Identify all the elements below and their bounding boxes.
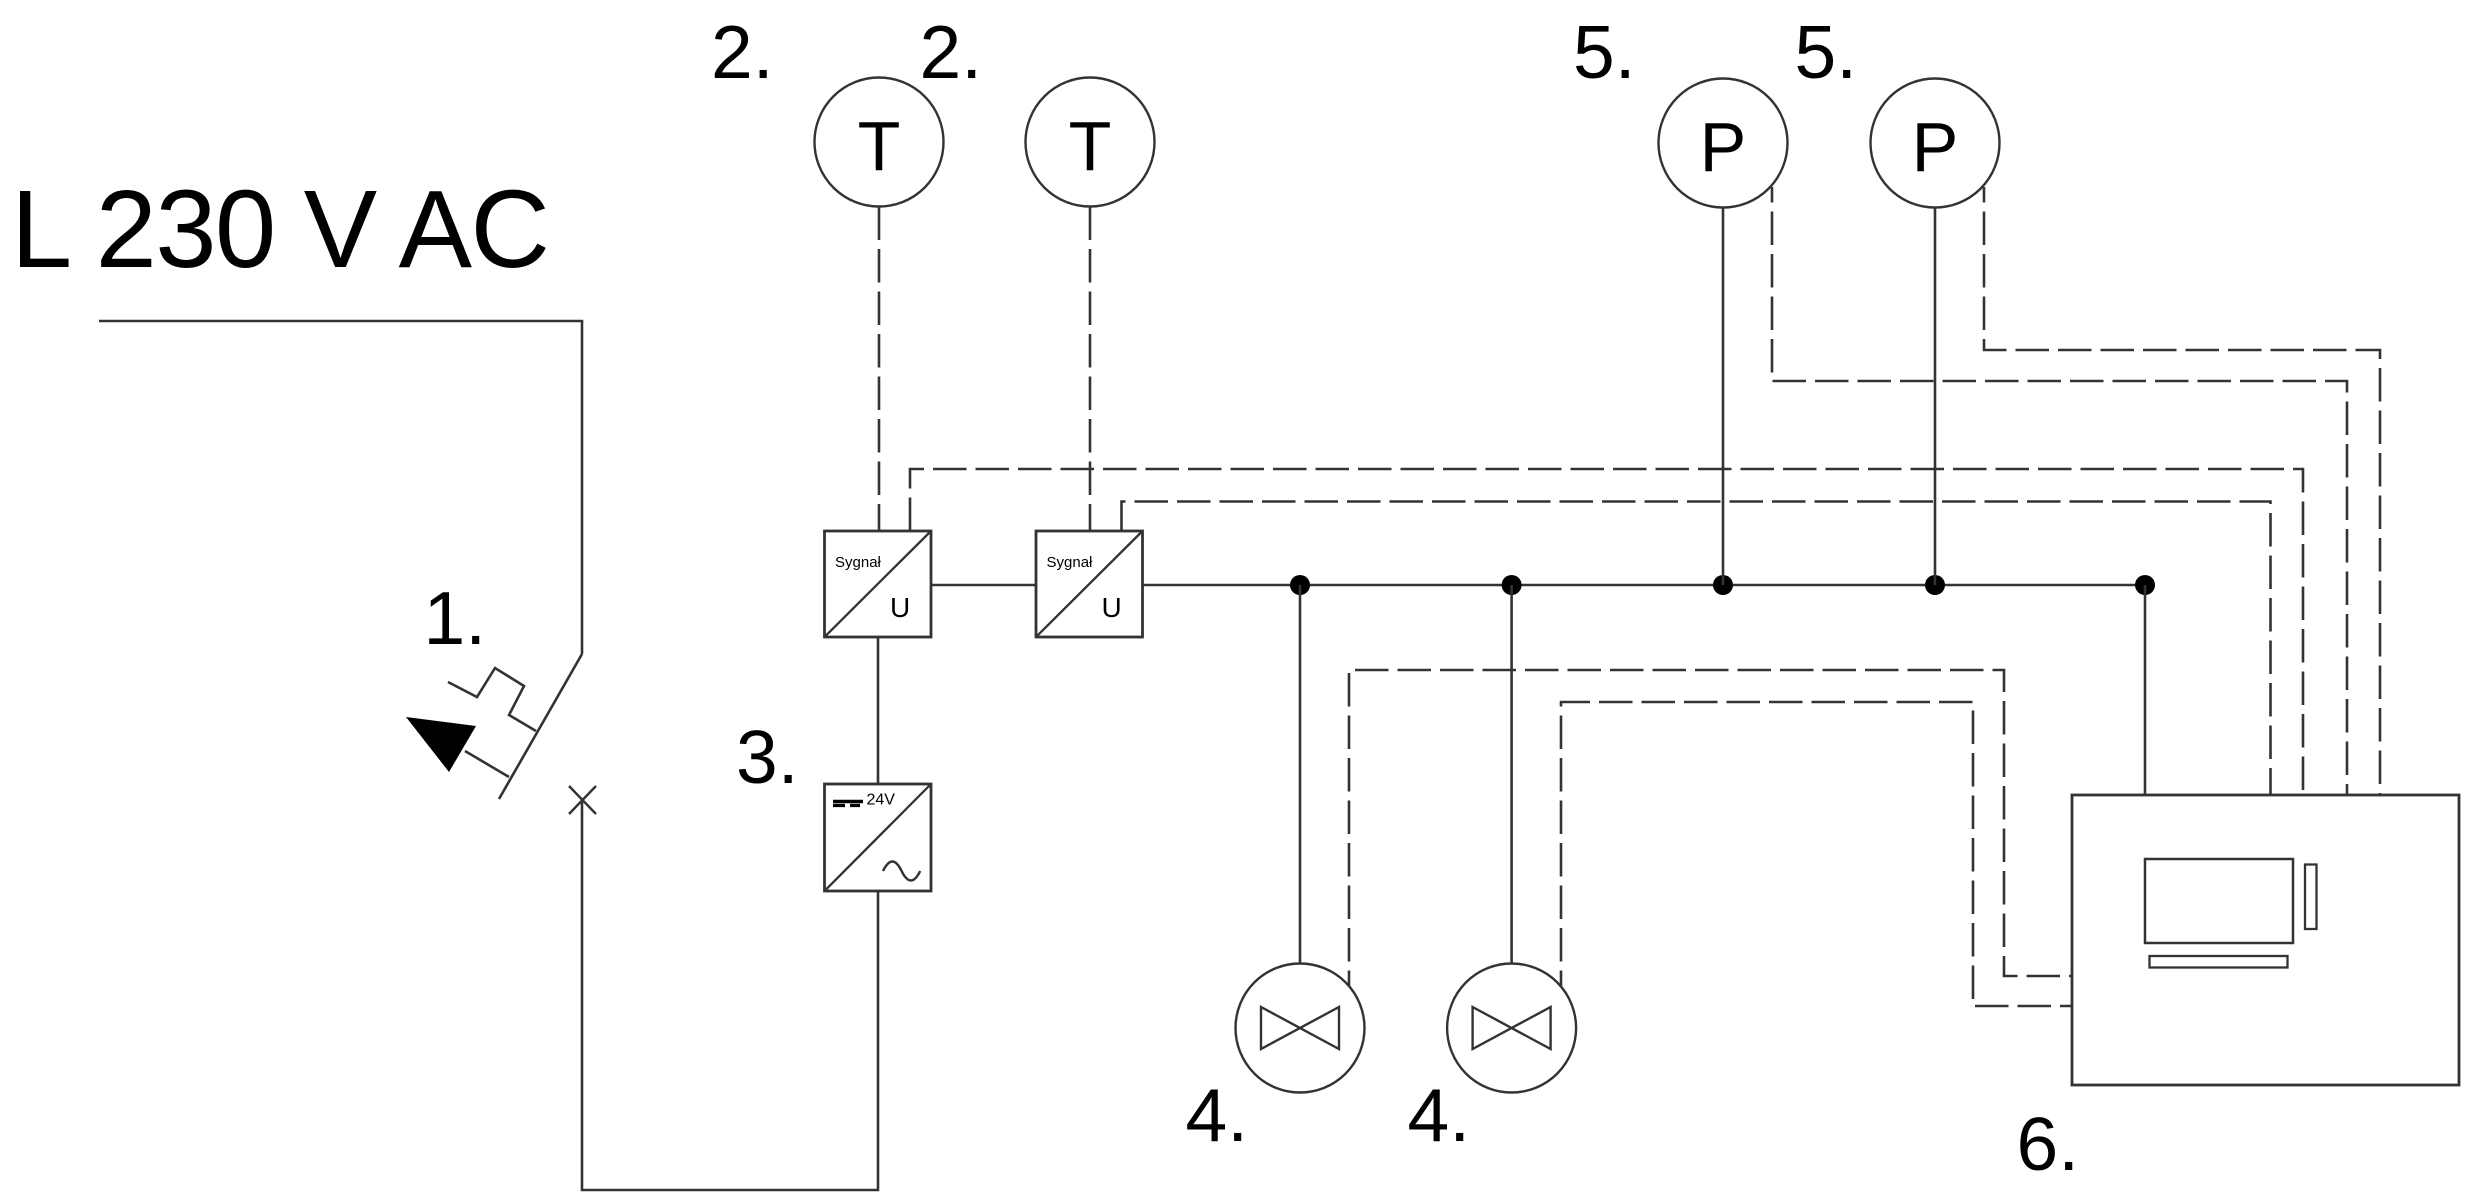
breaker 1 blade <box>499 654 582 799</box>
dashed feedback wire valve 1 to controller <box>1349 670 2072 986</box>
temperature sensor T2 circle <box>1026 78 1155 207</box>
svg-text:Sygnał: Sygnał <box>835 554 882 571</box>
wire bus to controller <box>2144 585 2147 795</box>
main bus wire <box>1143 584 2146 587</box>
svg-text:2.: 2. <box>711 10 774 94</box>
svg-text:4.: 4. <box>1408 1073 1471 1157</box>
valve 2 bowtie <box>1473 1007 1551 1049</box>
dashed feedback wire converter U2 to controller <box>1122 502 2271 796</box>
svg-text:P: P <box>1700 108 1747 186</box>
power supply box 3 <box>825 784 932 891</box>
wire bus to valve 2 <box>1510 585 1513 964</box>
controller keyboard <box>2150 956 2288 968</box>
valve 1 bowtie <box>1261 1007 1339 1049</box>
svg-text:1.: 1. <box>424 576 487 660</box>
svg-text:T: T <box>1069 107 1112 185</box>
junction node controller <box>2135 575 2155 595</box>
breaker 1 actuator arrow <box>406 717 476 772</box>
wire converter U1 to power supply <box>877 637 880 784</box>
signal converter U1 diagonal <box>825 531 932 637</box>
signal converter U1 box <box>825 531 932 637</box>
breaker 1 actuator tail <box>465 751 509 777</box>
svg-text:5.: 5. <box>1795 10 1858 94</box>
svg-text:L 230 V AC: L 230 V AC <box>11 168 548 291</box>
dashed feedback wire P2 to controller <box>1984 187 2380 795</box>
svg-text:U: U <box>890 592 910 623</box>
wire bus to valve 1 <box>1299 585 1302 964</box>
power supply DC symbol solid bar <box>833 800 863 803</box>
svg-text:Sygnał: Sygnał <box>1047 554 1094 571</box>
svg-text:4.: 4. <box>1186 1073 1249 1157</box>
pressure sensor P2 circle <box>1871 79 2000 208</box>
bus wire U1 to U2 <box>931 584 1036 587</box>
svg-text:2.: 2. <box>920 10 983 94</box>
svg-text:T: T <box>858 107 901 185</box>
wire L feed top <box>99 321 582 654</box>
svg-text:3.: 3. <box>736 715 799 799</box>
svg-text:5.: 5. <box>1573 10 1636 94</box>
svg-text:6.: 6. <box>2017 1102 2080 1186</box>
dashed feedback wire converter U1 to controller <box>910 469 2303 795</box>
pressure sensor P1 circle <box>1659 79 1788 208</box>
power supply DC symbol dashed bar <box>833 804 860 807</box>
svg-text:24V: 24V <box>867 792 896 809</box>
wire breaker to bottom loop <box>582 800 878 1190</box>
dashed feedback wire valve 2 to controller <box>1561 702 2072 1006</box>
dashed wire T1 to converter U1 <box>878 207 881 532</box>
power supply diagonal <box>825 784 932 891</box>
junction node valve 1 <box>1290 575 1310 595</box>
breaker 1 thermal trip element <box>448 668 536 731</box>
power supply AC sine symbol <box>883 862 920 881</box>
temperature sensor T1 circle <box>815 78 944 207</box>
junction node P2 <box>1925 575 1945 595</box>
junction node P1 <box>1713 575 1733 595</box>
signal converter U2 diagonal <box>1036 531 1143 637</box>
valve 1 circle <box>1236 964 1365 1093</box>
dashed feedback wire P1 to controller <box>1772 187 2347 795</box>
junction node valve 2 <box>1502 575 1522 595</box>
valve 2 circle <box>1447 964 1576 1093</box>
controller box 6 <box>2072 795 2459 1085</box>
dashed wire T2 to converter U2 <box>1089 207 1092 532</box>
svg-text:U: U <box>1102 592 1122 623</box>
wire bus to sensor P1 <box>1722 208 1725 586</box>
svg-text:P: P <box>1912 108 1959 186</box>
signal converter U2 box <box>1036 531 1143 637</box>
controller monitor <box>2145 859 2293 943</box>
breaker 1 contact X <box>569 786 596 814</box>
controller tower <box>2305 865 2317 930</box>
wire bus to sensor P2 <box>1934 208 1937 586</box>
